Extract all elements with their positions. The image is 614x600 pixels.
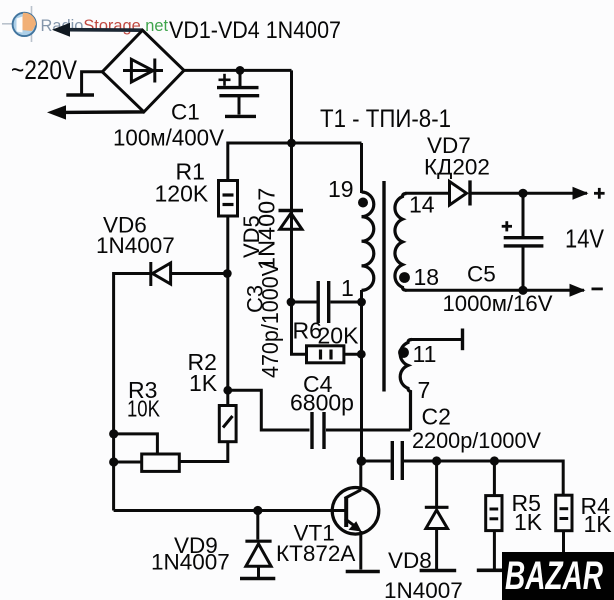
transistor VT1 (332, 488, 379, 535)
svg-text:VD1-VD4 1N4007: VD1-VD4 1N4007 (169, 17, 341, 44)
wire R2-node to C4 (step) (228, 390, 310, 430)
svg-text:2200p/1000V: 2200p/1000V (412, 428, 541, 453)
wire C4 right to pin7 corner (crosses x=361 line) (326, 429, 411, 432)
node R3 upper (109, 429, 118, 438)
svg-text:КД202: КД202 (424, 155, 490, 180)
svg-text:7: 7 (418, 377, 431, 403)
node VD8 (432, 456, 441, 465)
bridge rectifier VD1-VD4 (diamond) (102, 30, 184, 112)
phase dot pin 11 (398, 347, 409, 358)
diode VD5 (pointing up) (279, 211, 304, 230)
wire VD8 top (435, 461, 438, 506)
svg-text:C2: C2 (422, 404, 451, 430)
svg-text:470p/1000V: 470p/1000V (257, 262, 283, 378)
wire R1 bottom to VD6 node (226, 216, 229, 274)
svg-text:1N4007: 1N4007 (96, 233, 175, 258)
wire R5 bottom (493, 531, 496, 569)
wire R5 top (493, 461, 496, 496)
ground bar VD8 (420, 569, 457, 573)
svg-text:120K: 120K (155, 181, 209, 207)
wire AC line left stub from bridge left corner (82, 72, 103, 94)
svg-text:18: 18 (414, 264, 440, 290)
node VD9 (253, 506, 262, 515)
node VD7/C5 (518, 189, 527, 198)
wire collector to node B (359, 461, 362, 490)
resistor R1 (219, 181, 238, 217)
wire x=228 down to R2 node (226, 274, 229, 406)
wire x=228 from bus down to R1 (226, 142, 229, 181)
phase dot pin 19 (358, 198, 368, 208)
wire VD6 left segment (114, 272, 150, 275)
node R3 lower (109, 457, 118, 466)
arrowhead plus output (573, 187, 589, 200)
svg-text:1K: 1K (189, 370, 218, 396)
node at x=291 y=143 (287, 139, 296, 148)
capacitor C1 (217, 70, 259, 116)
node VD6/R1/R2 (223, 269, 232, 278)
wire VD9 bottom (257, 566, 260, 577)
diode inside bridge (123, 59, 163, 83)
wire VD6 right segment to node (171, 272, 228, 275)
terminal bar pin 11 (461, 329, 464, 351)
node B (collector / C2) (357, 456, 367, 466)
svg-text:1: 1 (341, 275, 354, 301)
minus output symbol (592, 287, 603, 290)
wire R4 bottom (562, 531, 565, 583)
diode VD6 (151, 262, 171, 286)
node pin1/C3 (357, 298, 366, 307)
resistor R6 (307, 346, 344, 363)
svg-text:10K: 10K (127, 396, 161, 422)
svg-text:100м/400V: 100м/400V (113, 125, 224, 151)
wire primary bottom to pin1 node (360, 290, 363, 302)
svg-text:11: 11 (413, 341, 437, 367)
resistor R4 (556, 495, 572, 531)
ground bar VD9 (240, 577, 275, 581)
wire VD7 to plus output (470, 192, 587, 195)
capacitor C2 (392, 441, 402, 480)
node C5/minus rail (518, 286, 527, 295)
svg-text:1N4007: 1N4007 (384, 578, 463, 600)
wire pin19 from bus corner down to winding (360, 143, 363, 193)
wire R3 top tap (114, 434, 158, 454)
ground bar R5 (477, 568, 512, 572)
resistor R3 (142, 454, 180, 471)
arrowhead minus output (570, 284, 586, 297)
wire secondary top to VD7 (405, 192, 450, 195)
svg-text:КТ872A: КТ872A (276, 541, 355, 566)
arrowhead AC bottom (47, 105, 66, 119)
wire node to C3 left plate (291, 301, 317, 304)
logo RadioStorage.net watermark (2, 6, 169, 42)
svg-text:1K: 1K (584, 511, 613, 537)
wire AC line bottom (from bridge bottom corner to mains arrow) (62, 110, 144, 114)
transformer T1 feedback winding (pins 11-7) (400, 340, 412, 431)
svg-text:1000м/16V: 1000м/16V (443, 291, 553, 316)
transformer core (382, 181, 385, 392)
capacitor C4 (312, 412, 324, 449)
transformer T1 primary winding (pins 19-1) (362, 192, 374, 290)
arrowhead AC top (52, 23, 70, 37)
capacitor C5 (504, 238, 544, 246)
plus sign C5 (502, 221, 512, 231)
node R6/x361 (357, 350, 366, 359)
svg-text:T1 - ТПИ-8-1: T1 - ТПИ-8-1 (320, 105, 451, 133)
resistor R5 (486, 496, 502, 531)
ground bar R4 (541, 583, 588, 587)
svg-text:~220V: ~220V (11, 55, 77, 85)
wire secondary bottom to minus output (405, 289, 584, 292)
node VD5/C3/R6 (287, 298, 296, 307)
wire x=361 down to node B (crosses y=430 wire) (360, 302, 363, 461)
phase dot pin 18 (399, 272, 410, 283)
wire pin 11 to terminal bar (410, 338, 461, 341)
diode VD7 (450, 180, 471, 205)
ground bar emitter (346, 570, 380, 574)
terminal bar AC left (66, 93, 94, 96)
wire node to R3 left (114, 461, 142, 464)
resistor R2 (with slash) (219, 406, 236, 442)
wire node B to C2 (361, 460, 390, 463)
svg-text:C5: C5 (467, 262, 496, 287)
svg-text:BAZAR: BAZAR (505, 554, 603, 598)
transformer T1 secondary winding (pins 14-18) (395, 194, 407, 291)
wire horizontal bus y=143 (228, 142, 362, 145)
diode VD8 (pointing up) (425, 507, 449, 528)
wire C5 top (522, 193, 525, 236)
wire x=291 bus corner down through VD5 (290, 143, 293, 302)
wire AC line top (from bridge top corner to mains arrow) (66, 28, 143, 32)
wire left column bottom corner to base rail (114, 509, 346, 512)
wire x=291 down then right to R6 (292, 302, 306, 354)
wire emitter down (359, 531, 362, 570)
svg-text:14: 14 (409, 192, 435, 218)
plus output symbol (594, 188, 605, 199)
node bridge/C1 junction (236, 66, 245, 75)
wire R6 right to x=361 node (344, 353, 362, 356)
svg-text:1N4007: 1N4007 (151, 550, 230, 575)
svg-text:19: 19 (328, 176, 354, 202)
wire C2 right to R4 corner (404, 461, 563, 495)
wire C3 right plate to pin1 node (331, 301, 362, 304)
svg-text:14V: 14V (565, 224, 605, 254)
wire VD8 bottom (435, 529, 438, 570)
watermark BAZAR box (502, 552, 614, 600)
svg-text:C1: C1 (171, 100, 200, 125)
svg-text:20K: 20K (318, 323, 360, 349)
wire from bridge output corner down (290, 70, 293, 144)
svg-text:VD8: VD8 (388, 548, 432, 573)
wire C5 bottom (522, 246, 525, 290)
wire VD9 top (256, 511, 259, 540)
diode VD9 (pointing up) (245, 541, 271, 566)
capacitor C3 (318, 281, 329, 323)
node R5 (490, 456, 499, 465)
wire left column VD6 corner down (112, 272, 115, 511)
svg-text:1N4007: 1N4007 (254, 188, 280, 270)
svg-text:1K: 1K (514, 509, 543, 535)
plus sign C1 (219, 74, 231, 86)
wire R2 bottom corner to left (179, 442, 228, 462)
node R2 top / C4 branch (223, 386, 232, 395)
svg-text:6800p: 6800p (290, 390, 354, 416)
wire bridge output to C1 and right corner (184, 69, 292, 72)
